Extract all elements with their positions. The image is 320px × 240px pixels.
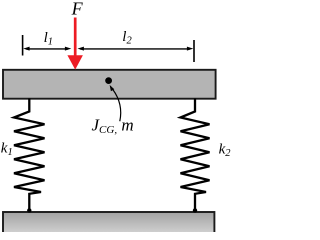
dimension tick right: [193, 40, 195, 62]
svg-text:JCG, m: JCG, m: [92, 115, 134, 136]
dimension line l2: [78, 47, 194, 51]
CG dot: [105, 77, 112, 84]
svg-text:F: F: [71, 0, 84, 19]
spring k2: [181, 99, 210, 212]
mass bar M: [3, 70, 216, 99]
dimension line l1: [23, 47, 71, 51]
force arrow F (red): [67, 18, 83, 70]
leader arrow to CG: [110, 85, 121, 121]
junction spring k1 / ground: [27, 208, 31, 212]
svg-text:l2: l2: [122, 29, 132, 46]
svg-text:k1: k1: [1, 140, 13, 158]
junction spring k2 / ground: [193, 208, 197, 212]
svg-text:k2: k2: [219, 141, 231, 159]
svg-text:l1: l1: [44, 30, 53, 47]
ground: [3, 212, 214, 239]
spring k1: [14, 99, 45, 212]
dimension tick left: [22, 35, 24, 56]
